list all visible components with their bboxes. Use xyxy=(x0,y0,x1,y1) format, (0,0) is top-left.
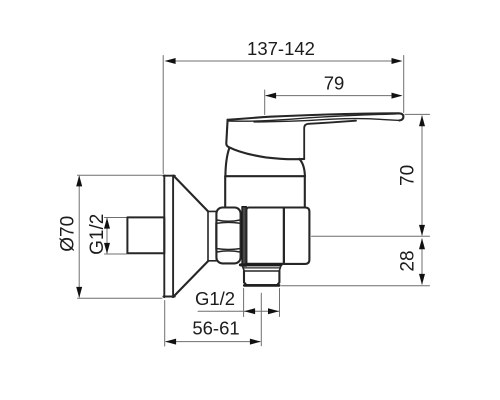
escutcheon flange back line xyxy=(172,175,174,297)
handle neck xyxy=(304,121,356,159)
dimension line diameter 70 xyxy=(78,177,80,298)
escutcheon bottom edge xyxy=(163,296,174,298)
svg-text:70: 70 xyxy=(398,165,419,186)
arrow left 79 xyxy=(265,93,276,99)
extension line diameter top xyxy=(78,174,163,176)
escutcheon flange front line xyxy=(163,175,165,297)
arrow left G12 bottom xyxy=(244,308,255,314)
arrow left 56-61 xyxy=(165,339,176,345)
hex nut middle facet side bulges xyxy=(215,223,217,250)
outlet collar mid line xyxy=(243,267,280,269)
arrow up G12 left xyxy=(104,218,110,229)
handle hub outline xyxy=(226,120,304,159)
cone top slant xyxy=(174,176,208,211)
arrow right 137-142 xyxy=(392,58,403,64)
lever top highlight xyxy=(228,114,396,121)
outlet collar bottom line xyxy=(244,270,279,272)
hex nut outline xyxy=(216,208,240,264)
svg-text:79: 79 xyxy=(324,73,345,94)
extension line 79 left xyxy=(264,90,266,115)
extension line diameter bottom xyxy=(78,297,163,299)
seal ring xyxy=(242,207,246,266)
outlet collar right xyxy=(279,266,281,272)
arrow right G12 bottom xyxy=(268,308,279,314)
extension line 28 bottom horizontal xyxy=(282,285,430,287)
extension line handle tip vertical xyxy=(403,56,405,113)
svg-text:Ø70: Ø70 xyxy=(58,216,79,252)
arrow down dia70 xyxy=(76,287,82,298)
outlet collar left xyxy=(242,266,244,272)
hex nut upper facet arcs xyxy=(217,220,240,221)
body cylinder left edge xyxy=(224,176,226,207)
arrow down 70 xyxy=(419,225,425,236)
dimension line G12 left xyxy=(106,219,108,254)
svg-text:137-142: 137-142 xyxy=(247,38,315,59)
extension line G12 left top xyxy=(105,217,127,219)
escutcheon top edge xyxy=(163,175,174,177)
extension line supply axis xyxy=(312,235,430,237)
arrow right 56-61 xyxy=(250,339,261,345)
arrow up 28 xyxy=(419,238,425,249)
centre line outlet xyxy=(260,293,262,346)
arrow left 137-142 xyxy=(165,58,176,64)
dimension line 137-142 xyxy=(166,60,401,62)
body block right xyxy=(284,208,310,264)
lever top edge xyxy=(228,113,404,120)
extension line G12 left bottom xyxy=(105,253,127,255)
extension line G12 bottom left xyxy=(243,289,245,317)
extension line left wall (top) xyxy=(162,56,164,174)
arrow up dia70 xyxy=(76,175,82,186)
dimension line 79 xyxy=(266,95,401,97)
cone neck band xyxy=(208,211,216,260)
arrow down 28 xyxy=(419,274,425,285)
dimension line 56-61 xyxy=(166,341,260,343)
dome right arc xyxy=(299,159,305,176)
outlet thread xyxy=(244,271,279,285)
hex nut lower facet arcs xyxy=(217,248,240,251)
body cylinder right edge xyxy=(304,176,306,207)
extension line G12 bottom right xyxy=(279,289,281,317)
leader line G12 bottom xyxy=(198,310,280,312)
lever bottom edge xyxy=(254,119,400,122)
extension line 70 top horizontal xyxy=(405,113,430,115)
dimension line 28 xyxy=(421,239,423,284)
body top line xyxy=(225,175,305,177)
cone bottom slant xyxy=(174,261,208,296)
arrow down G12 left xyxy=(104,243,110,254)
dome left arc xyxy=(225,148,229,176)
dimension line 70 xyxy=(421,116,423,235)
body block left xyxy=(246,208,284,264)
svg-text:28: 28 xyxy=(398,250,419,271)
arrow up 70 xyxy=(419,115,425,126)
svg-text:56-61: 56-61 xyxy=(192,318,239,339)
outlet thread bottom thick xyxy=(244,284,279,287)
wall nipple G12 xyxy=(127,217,164,253)
extension line 56-61 left xyxy=(164,301,166,347)
outlet junction thick line xyxy=(240,263,281,266)
svg-text:G1/2: G1/2 xyxy=(195,288,235,309)
arrow right 79 xyxy=(392,93,403,99)
svg-text:G1/2: G1/2 xyxy=(87,214,108,255)
